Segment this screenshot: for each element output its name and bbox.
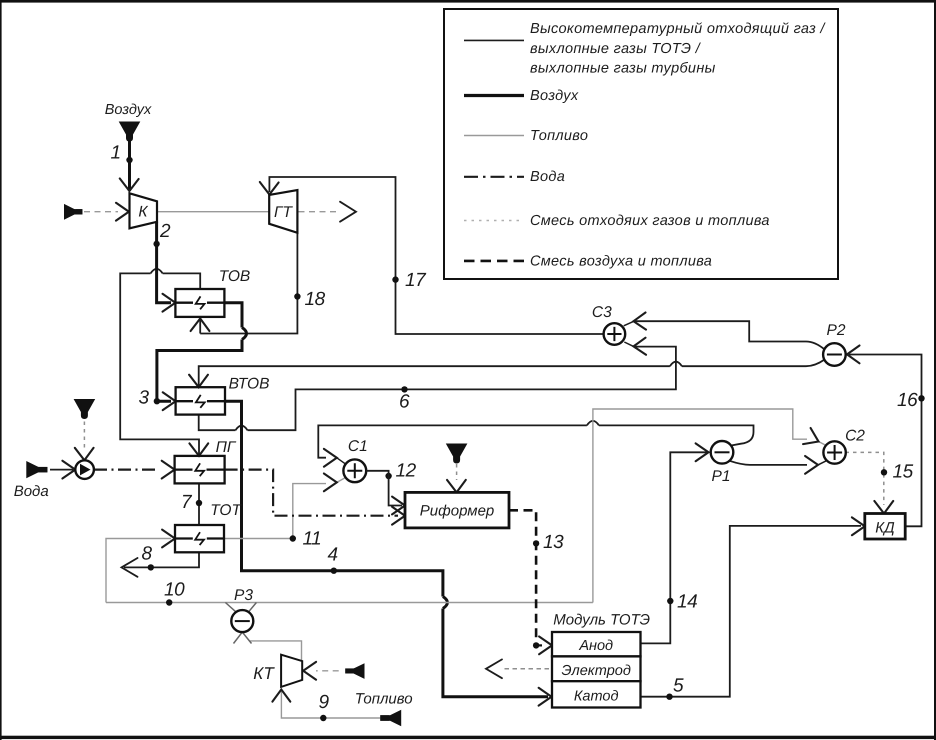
svg-text:ПГ: ПГ	[216, 439, 237, 456]
svg-text:КТ: КТ	[253, 664, 275, 683]
svg-text:15: 15	[893, 462, 914, 483]
svg-text:С2: С2	[845, 428, 865, 445]
svg-text:выхлопные газы ТОТЭ /: выхлопные газы ТОТЭ /	[530, 41, 702, 57]
svg-text:Воздух: Воздух	[105, 102, 152, 118]
svg-text:12: 12	[396, 461, 417, 482]
svg-text:Модуль ТОТЭ: Модуль ТОТЭ	[553, 612, 650, 629]
svg-text:ГТ: ГТ	[274, 204, 293, 221]
svg-text:3: 3	[139, 388, 150, 409]
svg-text:Р1: Р1	[712, 468, 731, 485]
svg-text:Воздух: Воздух	[530, 88, 579, 104]
svg-text:4: 4	[328, 545, 338, 566]
svg-text:Вода: Вода	[530, 169, 565, 185]
svg-text:Смесь воздуха и топлива: Смесь воздуха и топлива	[530, 254, 712, 270]
svg-text:ТОТ: ТОТ	[210, 502, 242, 519]
svg-text:Анод: Анод	[578, 638, 613, 654]
svg-text:Топливо: Топливо	[355, 691, 413, 708]
svg-text:17: 17	[405, 270, 427, 291]
svg-text:Смесь отходяих газов и топлива: Смесь отходяих газов и топлива	[530, 213, 770, 229]
svg-text:Катод: Катод	[574, 689, 619, 705]
svg-text:5: 5	[673, 676, 684, 697]
svg-text:14: 14	[677, 592, 697, 613]
svg-text:Высокотемпературный отходящий: Высокотемпературный отходящий газ /	[530, 21, 826, 37]
svg-text:Вода: Вода	[14, 483, 49, 500]
svg-text:Топливо: Топливо	[530, 128, 588, 144]
svg-text:16: 16	[897, 390, 918, 411]
svg-text:2: 2	[159, 221, 171, 242]
svg-text:Р2: Р2	[827, 322, 846, 339]
svg-text:С3: С3	[592, 304, 612, 321]
svg-text:КД: КД	[875, 520, 895, 537]
svg-text:Р3: Р3	[234, 587, 253, 604]
svg-text:1: 1	[111, 143, 121, 164]
svg-text:9: 9	[319, 692, 330, 713]
svg-text:Электрод: Электрод	[562, 663, 631, 679]
svg-text:8: 8	[142, 544, 153, 565]
svg-text:К: К	[138, 204, 148, 221]
svg-text:С1: С1	[348, 438, 368, 455]
svg-text:11: 11	[303, 529, 322, 550]
svg-text:18: 18	[305, 289, 326, 310]
svg-text:ТОВ: ТОВ	[219, 268, 251, 285]
svg-text:6: 6	[399, 392, 410, 413]
svg-text:10: 10	[164, 580, 185, 601]
svg-text:13: 13	[543, 532, 564, 553]
svg-text:ВТОВ: ВТОВ	[229, 376, 270, 393]
svg-text:Риформер: Риформер	[420, 503, 495, 520]
svg-text:выхлопные газы турбины: выхлопные газы турбины	[530, 61, 716, 77]
